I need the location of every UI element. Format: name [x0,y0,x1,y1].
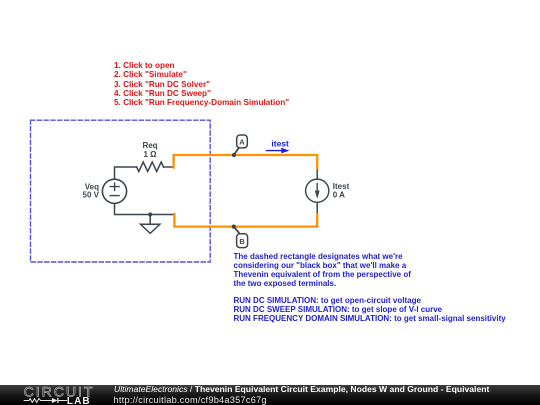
svg-text:1 Ω: 1 Ω [143,150,157,159]
wire: highlighted node A net (orange) [174,155,318,168]
Veq plus sign [110,183,119,190]
ground symbol [149,215,151,225]
annotation: blue description text [234,253,506,323]
current source Itest internal down arrow [316,184,318,195]
svg-text:Req: Req [142,141,157,150]
wire: highlighted node B net (orange) [174,214,317,227]
wire: Veq bottom lead to ground junction [115,203,174,214]
svg-text:0 A: 0 A [333,190,345,199]
svg-text:50 V: 50 V [83,191,100,200]
current source Itest 0 A circle [306,179,329,202]
annotation: red instructions text [114,61,289,108]
voltage source Veq 50 V circle [102,179,126,203]
junction dot at ground tap [148,212,152,216]
wire: current source bottom lead [316,202,318,215]
Veq minus sign [110,195,119,197]
annotation: itest current arrow [267,150,283,152]
svg-text:LAB: LAB [67,396,91,405]
footer bar [0,385,540,405]
logo schematic squiggle: diode [52,398,58,403]
wire: current source top lead [316,168,318,179]
node B flag (dot, pointer, label box) [232,225,236,229]
node A flag (dot, pointer, label box) [232,153,236,157]
svg-text:itest: itest [271,138,289,148]
logo schematic squiggle: wire + resistor [24,399,52,403]
svg-text:B: B [239,237,245,246]
dashed black-box boundary rectangle [31,120,211,262]
resistor Req 1 Ohm zigzag body [137,162,164,172]
wire: Veq top lead to resistor [115,167,137,179]
wire: resistor to orange node A net [164,166,174,168]
svg-text:A: A [239,138,245,147]
